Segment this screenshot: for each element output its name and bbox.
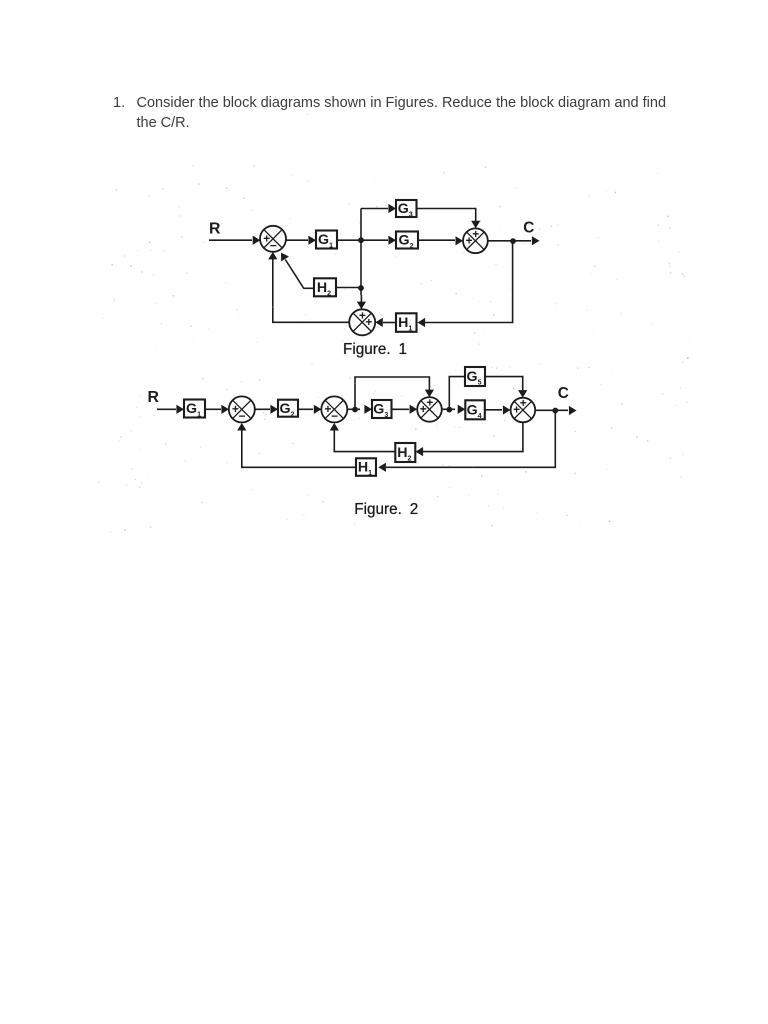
- svg-text:+: +: [365, 315, 372, 329]
- svg-text:+: +: [472, 227, 479, 241]
- svg-text:R: R: [148, 389, 160, 406]
- svg-text:R: R: [209, 221, 221, 238]
- svg-text:C: C: [558, 385, 569, 402]
- svg-text:+: +: [466, 233, 473, 247]
- svg-text:−: −: [331, 409, 338, 423]
- svg-text:+: +: [513, 403, 520, 417]
- svg-text:−: −: [239, 409, 246, 423]
- svg-text:+: +: [520, 396, 527, 410]
- svg-text:+: +: [420, 402, 427, 416]
- svg-text:C: C: [523, 219, 534, 236]
- svg-text:−: −: [270, 239, 277, 253]
- svg-text:+: +: [426, 395, 433, 409]
